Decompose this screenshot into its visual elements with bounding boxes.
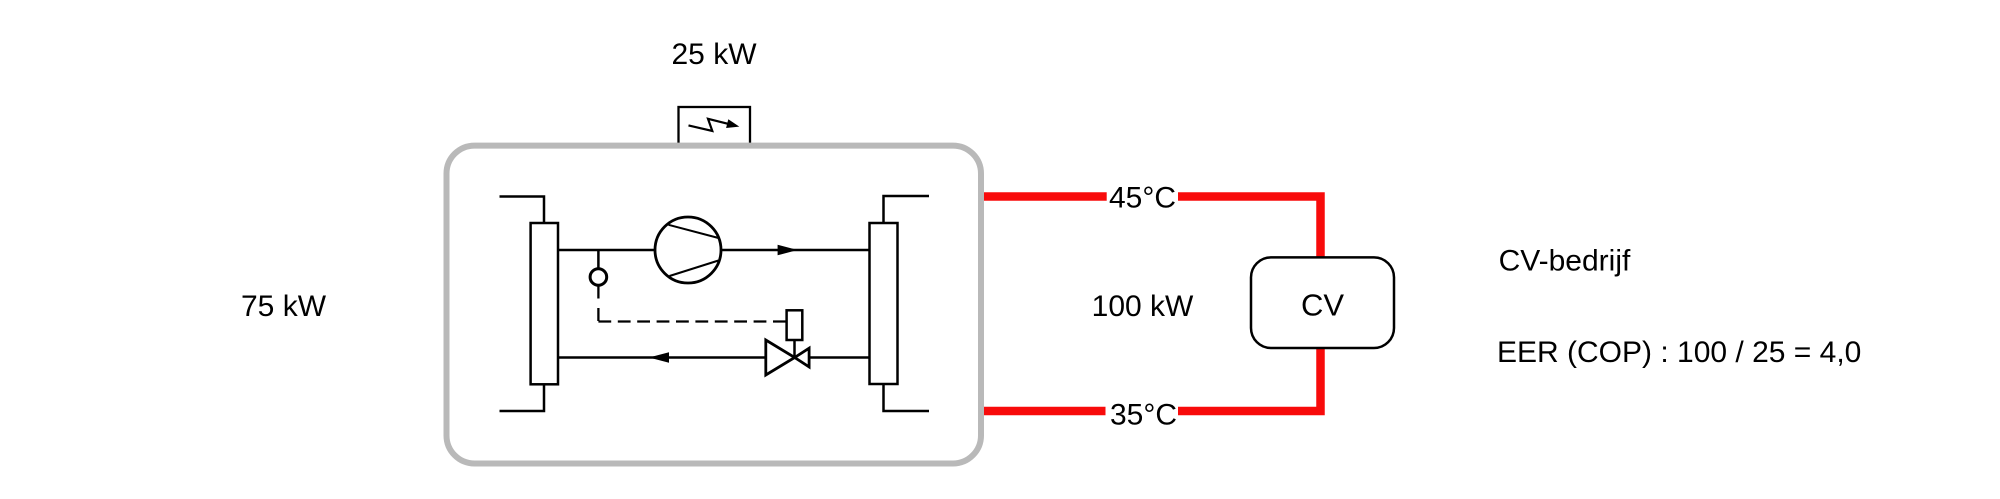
condenser bottom stub: [884, 384, 930, 411]
top pipe flow arrow: [778, 245, 798, 256]
bottom pipe flow arrow: [649, 352, 669, 363]
evaporator (left heat exchanger): [531, 223, 558, 384]
top refrigerant pipe: [558, 249, 870, 252]
svg-text:100 kW: 100 kW: [1092, 290, 1194, 323]
svg-text:75 kW: 75 kW: [241, 290, 327, 323]
svg-text:35°C: 35°C: [1110, 398, 1177, 431]
condenser (right heat exchanger): [870, 223, 898, 384]
condenser top stub: [884, 196, 930, 223]
CV boiler box: [1251, 257, 1394, 348]
bottom refrigerant pipe (right): [809, 356, 869, 359]
lightning bolt arrow: [689, 119, 740, 131]
heat pump enclosure (gray rounded box): [447, 146, 982, 464]
expansion valve: [766, 340, 809, 375]
control line vertical (dashed): [597, 286, 599, 322]
electric input box: [679, 107, 751, 147]
return water pipe 35°C (red): [984, 348, 1321, 411]
bottom refrigerant pipe (left): [558, 356, 766, 359]
evaporator top stub: [500, 197, 545, 224]
control line horizontal (dashed): [598, 320, 786, 322]
svg-text:CV-bedrijf: CV-bedrijf: [1499, 245, 1631, 278]
hot water supply pipe 45°C (red): [984, 197, 1321, 258]
sensor tap line: [597, 250, 600, 269]
sensor bulb: [590, 269, 607, 286]
evaporator bottom stub: [500, 384, 545, 411]
svg-text:45°C: 45°C: [1109, 181, 1176, 214]
svg-text:CV: CV: [1301, 288, 1344, 323]
svg-text:25 kW: 25 kW: [671, 38, 757, 71]
compressor: [655, 217, 721, 283]
valve actuator: [787, 310, 803, 357]
svg-text:EER (COP) : 100 / 25 = 4,0: EER (COP) : 100 / 25 = 4,0: [1497, 336, 1861, 369]
